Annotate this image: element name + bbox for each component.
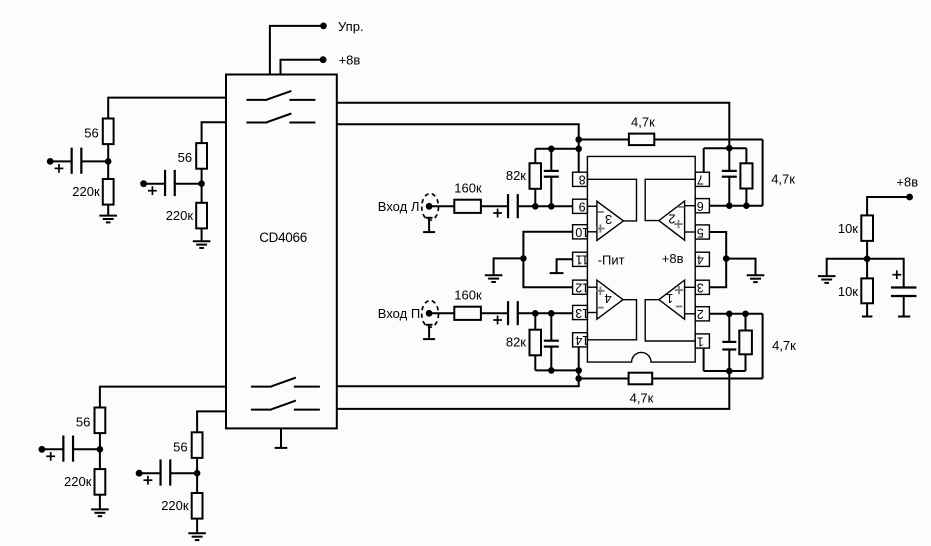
resistor 56 (top) [net2] — [196, 143, 207, 169]
junction node [net3] — [97, 446, 104, 453]
op-amp 1 triangle — [659, 280, 685, 319]
terminal +8v right — [906, 194, 913, 201]
svg-text:Упр.: Упр. — [338, 19, 364, 34]
svg-text:4,7к: 4,7к — [772, 338, 796, 353]
wire terminal to cap [net4] — [139, 472, 161, 474]
cap stem to signal [ch L] — [550, 177, 552, 207]
junction at cap [L] — [548, 203, 555, 210]
wire 82k to signal [ch R] — [534, 313, 536, 330]
wire resistor to ground [net3] — [99, 495, 101, 510]
resistor 4,7к right-top — [740, 163, 752, 188]
svg-text:56: 56 — [76, 415, 90, 430]
wire from divider to CD4066 [net4] — [197, 411, 226, 432]
wire junction to resistor [net3] — [99, 449, 101, 469]
svg-text:160к: 160к — [454, 180, 482, 195]
wire 160k to cap [R] — [481, 312, 508, 314]
junction resistor bottom — [743, 202, 750, 209]
resistor 10к upper — [861, 215, 873, 241]
svg-text:56: 56 — [178, 150, 192, 165]
svg-text:2: 2 — [697, 307, 704, 321]
termination bar lower 10k — [862, 316, 873, 318]
input terminal dot [net4] — [136, 470, 143, 477]
op-amp 3 plus sign — [596, 228, 604, 230]
op-amp IC U2 body with pin-1 notch — [587, 156, 695, 362]
input terminal dot [net1] — [47, 158, 54, 165]
internal stub pin to op3 input — [587, 205, 597, 207]
pin 4 box — [695, 252, 709, 266]
wire junction to resistor [net2] — [201, 184, 203, 203]
op-amp 4 triangle — [597, 280, 623, 319]
svg-text:4: 4 — [697, 253, 704, 267]
wire terminal to cap [net3] — [42, 448, 64, 450]
wire feedback top horizontal — [654, 139, 762, 141]
wire pin1 stub down — [703, 348, 705, 371]
junction node [net1] — [105, 158, 112, 165]
wire terminal to 160k [L] — [432, 205, 454, 207]
wire node to ground — [827, 259, 867, 276]
resistor 160к [L] — [454, 200, 481, 213]
plus polarity mark [L] — [493, 212, 502, 214]
wire terminal to cap [net1] — [50, 160, 71, 162]
svg-text:+8в: +8в — [896, 174, 918, 189]
cap stem to rail [ch R] — [550, 347, 552, 371]
svg-text:220к: 220к — [72, 184, 100, 199]
pin 2 box — [695, 307, 709, 321]
svg-text:220к: 220к — [166, 208, 194, 223]
pin 11 box — [573, 252, 588, 266]
terminal +8v top — [320, 56, 327, 63]
resistor 220к (bottom) [net4] — [192, 493, 203, 519]
resistor 82к [ch L] — [530, 163, 542, 189]
junction on pin5-3 loop — [723, 255, 730, 262]
bottom rail wire pin1 — [704, 370, 746, 372]
wire pin14 node to feedback resistor — [579, 378, 629, 380]
svg-text:1: 1 — [666, 291, 673, 306]
svg-text:+8в: +8в — [662, 251, 684, 266]
junction resistor top [bot] — [742, 311, 749, 318]
wire right branch vertical top — [762, 140, 764, 206]
op-amp 2 triangle — [659, 201, 685, 240]
switch S3 inside CD4066 — [251, 386, 272, 388]
svg-text:Вход П: Вход П — [378, 306, 420, 321]
junction at 82k [R] — [532, 310, 539, 317]
termination bar cap — [898, 316, 910, 318]
resistor 4,7к right-bottom — [739, 331, 752, 355]
cap stem to bottom rail [bot] — [728, 350, 730, 372]
resistor 4,7к feedback top — [629, 134, 654, 146]
capacitor divider — [891, 286, 917, 288]
op-amp 3 minus sign — [597, 211, 603, 213]
ground [net4] — [188, 532, 206, 534]
wire pin11 to supply bar — [557, 259, 573, 273]
wire 82k to rail [ch L] — [534, 149, 536, 163]
junction wire4/cap on bottom rail — [726, 368, 733, 375]
svg-text:12: 12 — [575, 281, 589, 295]
internal stub pin to op2 input — [685, 205, 696, 207]
terminal Upr — [320, 23, 327, 30]
pin 12 box — [573, 280, 588, 294]
svg-text:4,7к: 4,7к — [631, 114, 655, 129]
junction at 82k [L] — [532, 203, 539, 210]
ground [net2] — [193, 240, 211, 242]
resistor stem to bottom rail — [745, 189, 747, 206]
pin 3 box — [695, 280, 709, 294]
feedback capacitor C top-right — [722, 170, 737, 172]
svg-text:CD4066: CD4066 — [259, 230, 307, 245]
top-right rail wire — [704, 147, 747, 149]
wire pin8 node to feedback resistor — [579, 139, 629, 141]
svg-text:56: 56 — [173, 439, 187, 454]
junction on W2 at feedback resistor — [575, 136, 582, 143]
junction cap top [bot] — [726, 311, 733, 318]
pin 10 box — [573, 225, 588, 239]
wire resistor to junction [net4] — [196, 458, 198, 473]
resistor 220к (bottom) [net1] — [103, 179, 114, 205]
wire from divider to CD4066 [net3] — [100, 387, 226, 408]
svg-text:6: 6 — [697, 199, 704, 213]
wire loop to left ground — [494, 258, 524, 275]
svg-text:4,7к: 4,7к — [630, 390, 654, 405]
resistor 56 (top) [net3] — [95, 408, 106, 434]
wire pin10 to pin12 loop — [523, 232, 572, 287]
pin 6 box — [695, 199, 709, 213]
svg-text:82к: 82к — [506, 168, 526, 183]
82k rail wire [ch L] — [535, 148, 578, 150]
wire terminal to cap [net2] — [144, 183, 166, 185]
internal stub pin to op1 input — [685, 313, 696, 315]
op-amp 2 minus sign — [678, 206, 684, 208]
ground divider — [818, 275, 836, 277]
internal stub pin to op4 input — [587, 286, 597, 288]
junction node [net4] — [194, 470, 201, 477]
capacitor (electrolytic, series) [net1] — [71, 148, 73, 174]
svg-text:1: 1 — [697, 334, 704, 348]
junction cap on rail [ch L] — [548, 146, 555, 153]
wire cap to junction [net4] — [170, 472, 197, 474]
cap stem to rail [ch L] — [550, 149, 552, 171]
wire W4 CD4066 out to pin1 node — [337, 371, 730, 409]
ground [net1] — [99, 215, 117, 217]
plus polarity mark divider cap — [892, 274, 901, 276]
svg-text:3: 3 — [697, 281, 704, 295]
junction on W2 at 82k rail — [575, 146, 582, 153]
junction at cap [R] — [548, 310, 555, 317]
bottom rail wire pin6 — [709, 205, 762, 207]
svg-text:3: 3 — [605, 212, 612, 227]
wire W2 CD4066 out to pin8 node — [337, 124, 579, 172]
plus polarity mark [net4] — [144, 479, 153, 481]
connector sleeve symbol [L] — [428, 218, 430, 233]
internal stub pin to op3 input — [587, 231, 597, 233]
wire cap end — [903, 296, 905, 317]
capacitor (electrolytic, series) [net2] — [164, 170, 166, 196]
junction cap bottom — [726, 202, 733, 209]
svg-text:82к: 82к — [506, 335, 526, 350]
wire cap to opamp pin [R] — [518, 312, 573, 314]
wire node to lower 10k — [866, 259, 868, 279]
wire terminal to 160k [R] — [432, 312, 454, 314]
feedback capacitor C bottom-right — [722, 341, 736, 343]
ground left of IC — [485, 274, 503, 276]
internal stub pin to op2 input — [685, 231, 696, 233]
junction cap on rail [ch R] — [548, 367, 555, 374]
wire resistor to junction [net2] — [201, 169, 203, 184]
cap stem to bottom rail — [728, 177, 730, 206]
svg-text:5: 5 — [697, 225, 704, 239]
resistor stem to pin2 rail — [745, 314, 747, 331]
pin2 rail wire — [709, 313, 762, 315]
wire +8v to CD4066 — [281, 60, 324, 75]
switch S4 inside CD4066 — [251, 409, 272, 411]
pin 14 box — [573, 333, 588, 347]
cap stem to rail — [728, 148, 730, 171]
pin 9 box — [573, 199, 588, 213]
op-amp 3 triangle — [597, 201, 624, 240]
CD4066 bottom stub bar — [275, 447, 288, 449]
wire control Upr to CD4066 — [270, 26, 324, 75]
wire cap to junction [net3] — [73, 448, 100, 450]
svg-text:11: 11 — [576, 253, 589, 267]
wire node to cap — [867, 259, 904, 288]
junction node [net2] — [198, 180, 205, 187]
svg-text:220к: 220к — [64, 474, 92, 489]
op-amp 1 plus sign — [675, 289, 683, 291]
wire 82k to rail [ch R] — [534, 355, 536, 370]
svg-text:8: 8 — [579, 173, 586, 187]
svg-text:10к: 10к — [838, 221, 858, 236]
internal stub pin to op1 input — [685, 286, 696, 288]
resistor 220к (bottom) [net2] — [196, 203, 207, 229]
wire +8v to divider — [867, 197, 910, 215]
svg-text:4,7к: 4,7к — [771, 172, 795, 187]
wire resistor to ground [net1] — [107, 205, 109, 216]
coupling capacitor [R] — [507, 301, 509, 325]
op-amp 2 plus sign — [674, 223, 682, 225]
svg-text:56: 56 — [84, 126, 98, 141]
coupling capacitor [L] — [507, 194, 509, 218]
wire W1 CD4066 out to pin7 node — [337, 103, 730, 149]
plus polarity mark [R] — [493, 319, 502, 321]
pin 8 box — [573, 172, 588, 186]
CD4066 bottom stub wire — [280, 428, 282, 448]
resistor stem to bottom rail [bot] — [745, 354, 747, 371]
junction on pin10-12 loop — [520, 255, 527, 262]
wire from divider to CD4066 [net2] — [202, 122, 226, 143]
wire cap to opamp pin [L] — [518, 205, 573, 207]
svg-text:14: 14 — [575, 333, 589, 347]
connector sleeve symbol [R] — [428, 325, 430, 340]
wire W3 CD4066 out to pin14 node — [337, 347, 579, 387]
wire feedback bottom horizontal — [652, 378, 762, 380]
switch S1 inside CD4066 — [246, 99, 267, 101]
op-amp 1 minus sign — [676, 306, 682, 308]
switch S2 inside CD4066 — [246, 122, 267, 124]
wire resistor to ground [net2] — [201, 228, 203, 241]
plus polarity mark [net1] — [55, 167, 64, 169]
junction on W3 at feedback resistor — [575, 375, 582, 382]
wire loop to right ground — [726, 259, 755, 276]
pin 1 box — [695, 334, 709, 348]
pin11 termination bar — [550, 272, 564, 274]
resistor 4,7к feedback bottom — [629, 373, 653, 385]
divider node — [864, 255, 871, 262]
cap stem to signal [ch R] — [550, 313, 552, 341]
resistor 56 (top) [net1] — [103, 119, 114, 145]
resistor 56 (top) [net4] — [192, 432, 203, 458]
input terminal dot [R] — [426, 310, 433, 317]
ground [net3] — [91, 508, 109, 510]
input terminal dot [L] — [426, 203, 433, 210]
wire 82k to signal [ch L] — [534, 189, 536, 207]
svg-text:7: 7 — [697, 173, 704, 187]
input connector dashed ellipse [R] — [422, 301, 439, 328]
wire cap to junction [net2] — [175, 183, 202, 185]
wire resistor to junction [net3] — [99, 433, 101, 449]
wire junction to resistor [net4] — [196, 473, 198, 493]
plus polarity mark [net3] — [46, 455, 55, 457]
resistor 82к [ch R] — [530, 330, 542, 356]
pin 5 box — [695, 225, 709, 239]
internal route pin7 to op2 output — [645, 179, 695, 220]
svg-text:160к: 160к — [454, 287, 482, 302]
svg-text:13: 13 — [575, 306, 589, 320]
cap stem to pin2 rail — [728, 314, 730, 342]
CD4066 IC U1 body — [226, 75, 337, 429]
wire cap to junction [net1] — [81, 160, 108, 162]
input connector dashed ellipse [L] — [422, 194, 439, 221]
feedback capacitor [ch L] — [544, 170, 559, 172]
svg-text:-Пит: -Пит — [598, 253, 625, 268]
input terminal dot [net3] — [39, 446, 46, 453]
wire right branch vertical bottom — [762, 314, 764, 379]
pin 13 box — [573, 305, 588, 319]
wire junction to resistor [net1] — [107, 161, 109, 179]
op-amp 4 plus sign — [596, 290, 604, 292]
82k rail wire [ch R] — [535, 369, 578, 371]
resistor 160к [R] — [454, 307, 481, 320]
internal stub pin to op4 input — [587, 312, 597, 314]
wire from divider to CD4066 [net1] — [108, 98, 226, 119]
plus polarity mark [net2] — [148, 190, 157, 192]
pin 7 box — [695, 172, 709, 186]
svg-text:10: 10 — [575, 225, 589, 239]
internal route pin8 to op3 output — [587, 179, 636, 221]
junction on W3 at 82k rail — [575, 367, 582, 374]
resistor stem to top rail — [745, 148, 747, 163]
wire resistor to ground [net4] — [196, 519, 198, 534]
input terminal dot [net2] — [140, 180, 147, 187]
svg-text:4: 4 — [604, 291, 611, 306]
resistor 220к (bottom) [net3] — [95, 469, 106, 495]
wire resistor to junction [net1] — [107, 144, 109, 161]
wire 10k to node — [866, 241, 868, 259]
wire pin7 stub up to rail — [703, 148, 705, 172]
feedback capacitor [ch R] — [544, 340, 559, 342]
junction W1 and cap on rail — [726, 145, 733, 152]
wire 160k to cap [L] — [481, 205, 508, 207]
internal route pin1 to op1 output — [645, 300, 695, 341]
capacitor (electrolytic, series) [net3] — [62, 436, 64, 462]
wire lower 10k end — [866, 303, 868, 316]
capacitor (electrolytic, series) [net4] — [159, 459, 161, 485]
internal route pin14 to op4 output — [587, 300, 636, 340]
svg-text:+8в: +8в — [339, 53, 361, 68]
svg-text:10к: 10к — [838, 284, 858, 299]
ground right of IC — [747, 274, 765, 276]
svg-text:Вход Л: Вход Л — [378, 199, 420, 214]
svg-text:9: 9 — [579, 200, 586, 214]
wire pin5-pin3 loop — [709, 232, 726, 287]
svg-text:220к: 220к — [161, 498, 189, 513]
resistor 10к lower — [861, 278, 873, 303]
op-amp 4 minus sign — [597, 307, 603, 309]
